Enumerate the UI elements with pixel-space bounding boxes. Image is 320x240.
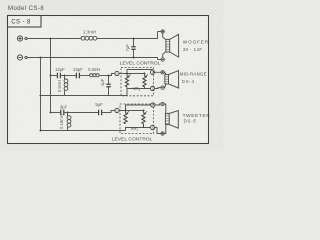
wires LC1 to mid speaker [155, 72, 161, 88]
terminal digits [116, 70, 154, 129]
vertical bus from minus [40, 58, 42, 131]
resistor VR2a [124, 113, 127, 124]
capacitor C1 shunt [131, 39, 135, 58]
LC1 dashed box [121, 68, 154, 96]
resistor VR2b [142, 113, 145, 128]
wire minus rail [27, 58, 157, 60]
mid minus mark [161, 86, 164, 89]
resistor VR1b [143, 76, 146, 89]
bottom minus bus [41, 130, 126, 132]
capacitor 23uF [76, 73, 79, 78]
node 2 mid [150, 70, 154, 74]
LC1 wiring [127, 70, 153, 96]
wire [64, 112, 67, 114]
capacitor 3uF [61, 110, 64, 115]
mid minus bus [41, 95, 128, 97]
woofer minus mark [161, 58, 164, 61]
wire node1 to LC1 [119, 73, 127, 75]
wire to woofer coil [158, 32, 166, 40]
wiper arrow VR1b [146, 74, 148, 76]
bottom chain from bus [51, 112, 61, 114]
woofer speaker symbol [166, 34, 179, 57]
input terminal plus [17, 36, 27, 41]
wiper arrow VR2b [145, 111, 147, 113]
node 6 bottom [151, 103, 155, 107]
tweeter plus mark [161, 132, 164, 135]
tweeter speaker symbol [165, 111, 178, 129]
input terminal minus [17, 55, 27, 60]
junction dots [40, 38, 146, 132]
LC2 wiring [126, 105, 151, 131]
wire plus rail to woofer [97, 32, 158, 39]
wire jog to LC1 [109, 74, 115, 76]
paper background [0, 0, 223, 150]
inductor 0.3mH [90, 74, 100, 77]
vertical bus from plus [50, 39, 52, 113]
shunt capacitor 1uF [106, 76, 110, 96]
wires to tweeter coil [165, 104, 166, 134]
CS-8 label box [8, 16, 42, 28]
capacitor 12uF [57, 73, 60, 78]
mid chain from bus [51, 75, 57, 77]
wire [99, 75, 108, 77]
mid speaker symbol [165, 71, 179, 88]
inductor L1 2.3mH [81, 36, 97, 40]
wire [80, 75, 90, 77]
wire [61, 75, 65, 77]
node 4 bottom [150, 125, 154, 129]
mid plus mark [161, 71, 164, 74]
wiper arrow VR2a [127, 111, 129, 113]
wiper arrow VR1a [128, 74, 130, 76]
resistor VR1a [125, 76, 128, 87]
wire [68, 112, 99, 114]
node 3 mid [150, 86, 154, 90]
node 1 bottom [115, 108, 119, 112]
wire jog to LC2 [102, 111, 115, 113]
wire node1 to LC2 [119, 110, 125, 112]
wires LC2 to tweeter [155, 104, 161, 134]
wire [65, 75, 77, 77]
woofer plus mark [161, 30, 164, 33]
wires to mid coil [164, 72, 166, 87]
shunt inductor tweeter [67, 113, 71, 131]
capacitor 5uF [99, 110, 102, 115]
LC2 dashed box [120, 104, 154, 134]
shunt inductor 0.5mH [64, 76, 68, 96]
wire woofer minus to coil [158, 52, 166, 60]
tweeter minus mark [161, 102, 164, 105]
wire plus rail [27, 38, 81, 40]
node 1 mid [115, 71, 119, 75]
schematic frame [8, 16, 209, 144]
